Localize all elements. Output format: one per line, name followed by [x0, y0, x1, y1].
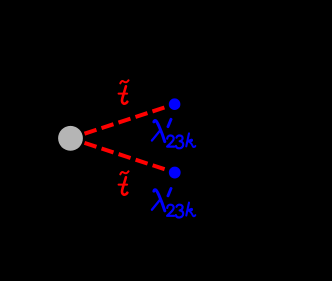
tilde accent: [120, 171, 128, 174]
wire: incoming line into blob (black, invisible on background): [0, 137, 58, 139]
propagator: lower stop (red dashed line): [85, 143, 165, 169]
subscript 2: [167, 205, 174, 216]
subscript italic k arm: [187, 140, 192, 143]
label: upper coupling lambda'_23k (blue): [152, 119, 196, 148]
subscript 3: [176, 136, 183, 149]
subscript italic k stem: [186, 133, 189, 146]
prime: [168, 189, 171, 196]
subscript italic k arm: [187, 209, 192, 212]
subscript italic k leg: [190, 211, 196, 216]
lambda left leg: [152, 200, 160, 210]
t crossbar: [119, 93, 128, 95]
subscript 3: [176, 205, 183, 218]
tilde accent: [120, 80, 128, 83]
vertex dot: upper RPV vertex: [169, 98, 181, 110]
propagator: upper stop (red dashed line): [85, 108, 165, 134]
blob: gray interaction vertex: [58, 126, 83, 151]
subscript italic k leg: [190, 142, 196, 147]
t crossbar: [119, 184, 128, 186]
label: upper stop, tilde-t (red): [119, 80, 129, 103]
italic t stem with bottom hook: [122, 177, 127, 194]
label: lower stop, tilde-t (red): [119, 171, 129, 194]
subscript 2: [167, 136, 174, 147]
lambda main diagonal with top curl: [154, 121, 165, 142]
label: lower coupling lambda'_23k (blue): [152, 189, 196, 218]
vertex dot: lower RPV vertex: [169, 167, 181, 179]
subscript italic k stem: [186, 203, 189, 216]
prime: [168, 119, 171, 126]
italic t stem with bottom hook: [122, 86, 127, 103]
lambda main diagonal with top curl: [154, 190, 165, 211]
lambda left leg: [152, 131, 160, 141]
